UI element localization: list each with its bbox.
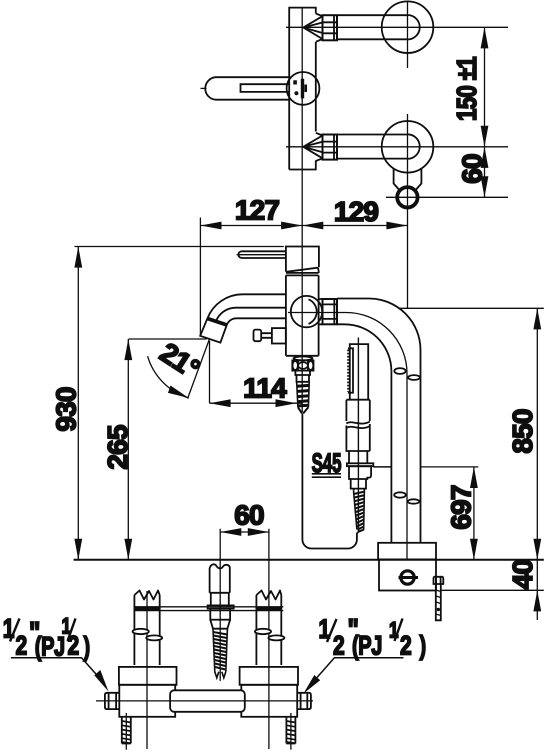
bottom view: right leg union break: [255, 629, 285, 641]
label left 1/2"(PJ1/2): [3, 614, 90, 662]
front view: hose nut neck: [295, 371, 310, 382]
dim 850/40: dimension line: [536, 308, 538, 620]
dim 265: dimension line: [127, 339, 129, 560]
dim 60 bottom: extension lines: [220, 529, 269, 592]
top view: supply elbow below lower flange: [394, 169, 422, 190]
svg-text:697: 697: [446, 485, 477, 530]
top view: lower connector axis line (60 dim top extension): [286, 146, 508, 148]
hand shower: spray strip: [348, 348, 353, 392]
svg-text:850: 850: [507, 409, 538, 454]
hand shower: holder arm to riser (697 extension): [373, 466, 391, 468]
svg-text:): ): [84, 632, 91, 663]
dim 850: top extension line from riser bend: [399, 307, 544, 309]
svg-text:114: 114: [243, 373, 287, 404]
dim 150/60: lower extension line at ring center: [386, 196, 508, 198]
bottom view: right eccentric screw: [286, 713, 295, 750]
dim 40: bottom extension line from base block: [440, 589, 544, 591]
top view: lower hex nut: [323, 135, 338, 160]
svg-text:150 ±1: 150 ±1: [451, 57, 482, 121]
bottom view: left supply leg: [134, 591, 159, 750]
riser: wall anchor bolt: [434, 577, 444, 621]
label S45: [312, 448, 342, 478]
front view: knurled connector nut to riser: [319, 299, 337, 324]
dim 697: top extension (holder arm): [421, 466, 478, 468]
top view: faucet body outline: [289, 8, 316, 170]
svg-text:2: 2: [16, 631, 28, 661]
front view: lever bar: [237, 251, 286, 258]
svg-text:265: 265: [102, 425, 133, 470]
svg-text:2: 2: [68, 631, 80, 661]
top view: upper hex nut: [323, 15, 338, 40]
deck / tub rim line: [74, 559, 544, 561]
front view: diverter circle on body: [291, 296, 322, 327]
bottom view: center stud centerline: [219, 566, 221, 681]
label right 1/2"(PJ 1/2 ): [319, 612, 427, 661]
svg-text:930: 930: [51, 387, 82, 432]
front view: cap rings: [286, 273, 319, 276]
top view: lever hub circle: [287, 72, 320, 105]
riser: vertical pipe edges: [391, 350, 420, 543]
riser: outer bend arc: [369, 299, 421, 351]
bottom view: right inlet hex nut: [298, 693, 311, 709]
bottom view: stud threaded rod: [213, 629, 227, 678]
front view: lever hub / cap: [286, 247, 319, 274]
svg-text:2: 2: [400, 631, 412, 661]
top view: supply pipe ring (thick circle): [397, 187, 417, 207]
dim 697: dimension line: [473, 467, 475, 560]
riser: base block body: [379, 559, 436, 590]
hand shower: block below holder: [349, 466, 371, 479]
svg-text:60: 60: [457, 154, 488, 184]
top view: lower wall pipe: [337, 135, 408, 159]
label left leader arrow: [11, 658, 109, 692]
hand shower: lower step: [351, 479, 366, 489]
front view: spout aerator joint (thick): [207, 319, 226, 325]
hand shower: handle upper section: [346, 400, 369, 421]
hand shower: holder flange: [347, 463, 373, 466]
top view: lower eccentric cone fan: [303, 133, 322, 161]
bottom view: left inlet hex nut: [105, 693, 119, 709]
svg-text:1: 1: [3, 614, 15, 644]
front view: diverter axis line merging into riser centerline arc: [288, 313, 407, 374]
dim 21: angle arc: [148, 356, 189, 398]
dim 127/129: extension line at spout tip: [199, 218, 201, 336]
top view: upper wall pipe: [337, 15, 408, 39]
bottom view: mounting bracket bar: [134, 607, 283, 611]
dim 127/129: dimension line: [200, 225, 407, 227]
dim 697 arrows: [470, 467, 478, 560]
dim 930 arrows: [74, 247, 82, 560]
top view: lower wall flange circle: [382, 121, 434, 173]
svg-text:(PJ: (PJ: [352, 631, 382, 662]
dim 114 arrows: [210, 399, 297, 407]
hand shower: neck section above holder: [349, 451, 367, 463]
riser: upper union break ellipses: [394, 368, 420, 380]
dim 265 arrows: [124, 339, 132, 560]
riser: base block screw symbol: [399, 571, 419, 584]
top view: upper connector axis line (150 dim top extension): [286, 26, 508, 28]
riser: pipe centerline below bend: [406, 374, 408, 560]
top view: hub markings: [293, 79, 307, 99]
top view: lower flange vertical centerline (extends down through 129 dim to riser bend): [407, 114, 409, 308]
hand shower: handle lower section: [346, 424, 369, 451]
front view: spout aerator tip: [200, 319, 227, 343]
front view: hose nut: [292, 360, 313, 370]
front view: side check-valve knob: [254, 328, 286, 343]
dim 114: dimension line: [210, 402, 303, 404]
top view: upper wall flange circle: [382, 1, 434, 53]
top view: body vertical centerline (extends down to front view): [301, 8, 303, 412]
svg-text:129: 129: [334, 196, 379, 227]
dim 850 arrows: [533, 308, 541, 560]
front view: hose outlet collar ellipse: [294, 357, 313, 361]
dim 930: top extension line from lever: [75, 246, 284, 248]
bottom view: center stud tube: [210, 564, 230, 605]
bottom view: bodies horizontal centerline: [96, 700, 313, 702]
front view: diverter inner arc: [309, 299, 317, 324]
bottom view: left leg union break: [133, 629, 163, 641]
top view: lever handle bar: [201, 77, 290, 100]
bottom view: left eccentric screw: [122, 713, 131, 750]
dim 21: spout axis line: [188, 339, 210, 399]
dim 114: vertical reference from spout tip: [209, 341, 211, 403]
hand shower: hose spring guard (hatched coil): [354, 490, 365, 531]
svg-text:2: 2: [333, 631, 345, 661]
top view: lower pipe end cap: [408, 134, 420, 159]
bottom view: stud taper: [210, 620, 230, 629]
hand shower: handle centerline: [357, 400, 359, 531]
top view: upper flange vertical centerline: [407, 1, 409, 68]
bottom view: left valve body: [119, 667, 177, 717]
riser: inner bend arc: [345, 324, 392, 371]
top view: upper eccentric cone fan: [303, 14, 322, 42]
bottom view: center connecting bar: [170, 690, 245, 712]
dim 127 arrows: [200, 222, 407, 230]
dim 60 bottom: dimension line: [220, 531, 269, 533]
svg-text:40: 40: [507, 560, 538, 590]
top view: upper pipe end cap: [408, 15, 420, 40]
hand shower: head tube: [350, 338, 368, 400]
riser: base block flange: [378, 543, 436, 560]
dim 150 arrows: [481, 27, 489, 197]
svg-text:): ): [420, 631, 427, 662]
hand shower: coil neck: [354, 489, 365, 491]
front view: shower hose loop: [302, 413, 361, 548]
dim 265: extension line from spout tip: [129, 338, 207, 340]
riser: lower union break ellipses: [394, 492, 419, 503]
riser: horizontal connector pipe lines: [337, 299, 369, 325]
bottom view: stud nut: [210, 609, 230, 620]
bottom view: right valve body: [240, 667, 298, 717]
dim 60 bottom arrows: [220, 528, 269, 536]
svg-text:127: 127: [235, 195, 280, 226]
svg-text:60: 60: [234, 500, 264, 531]
front view: hose spring guard (hatched coil): [297, 382, 310, 414]
dim 40 arrow (from below): [533, 590, 541, 611]
dim 21 arc arrow: [168, 386, 189, 399]
bottom view: right supply leg: [256, 591, 281, 750]
front view: spout: [207, 294, 286, 325]
label right leader arrow: [304, 658, 404, 694]
bottom view: stud washer: [208, 605, 234, 608]
hand shower: handle break wavy lines: [346, 422, 369, 429]
front view: body: [286, 275, 319, 355]
dim 150/60: vertical dimension line: [484, 27, 486, 197]
dim 930: dimension line: [77, 247, 79, 560]
